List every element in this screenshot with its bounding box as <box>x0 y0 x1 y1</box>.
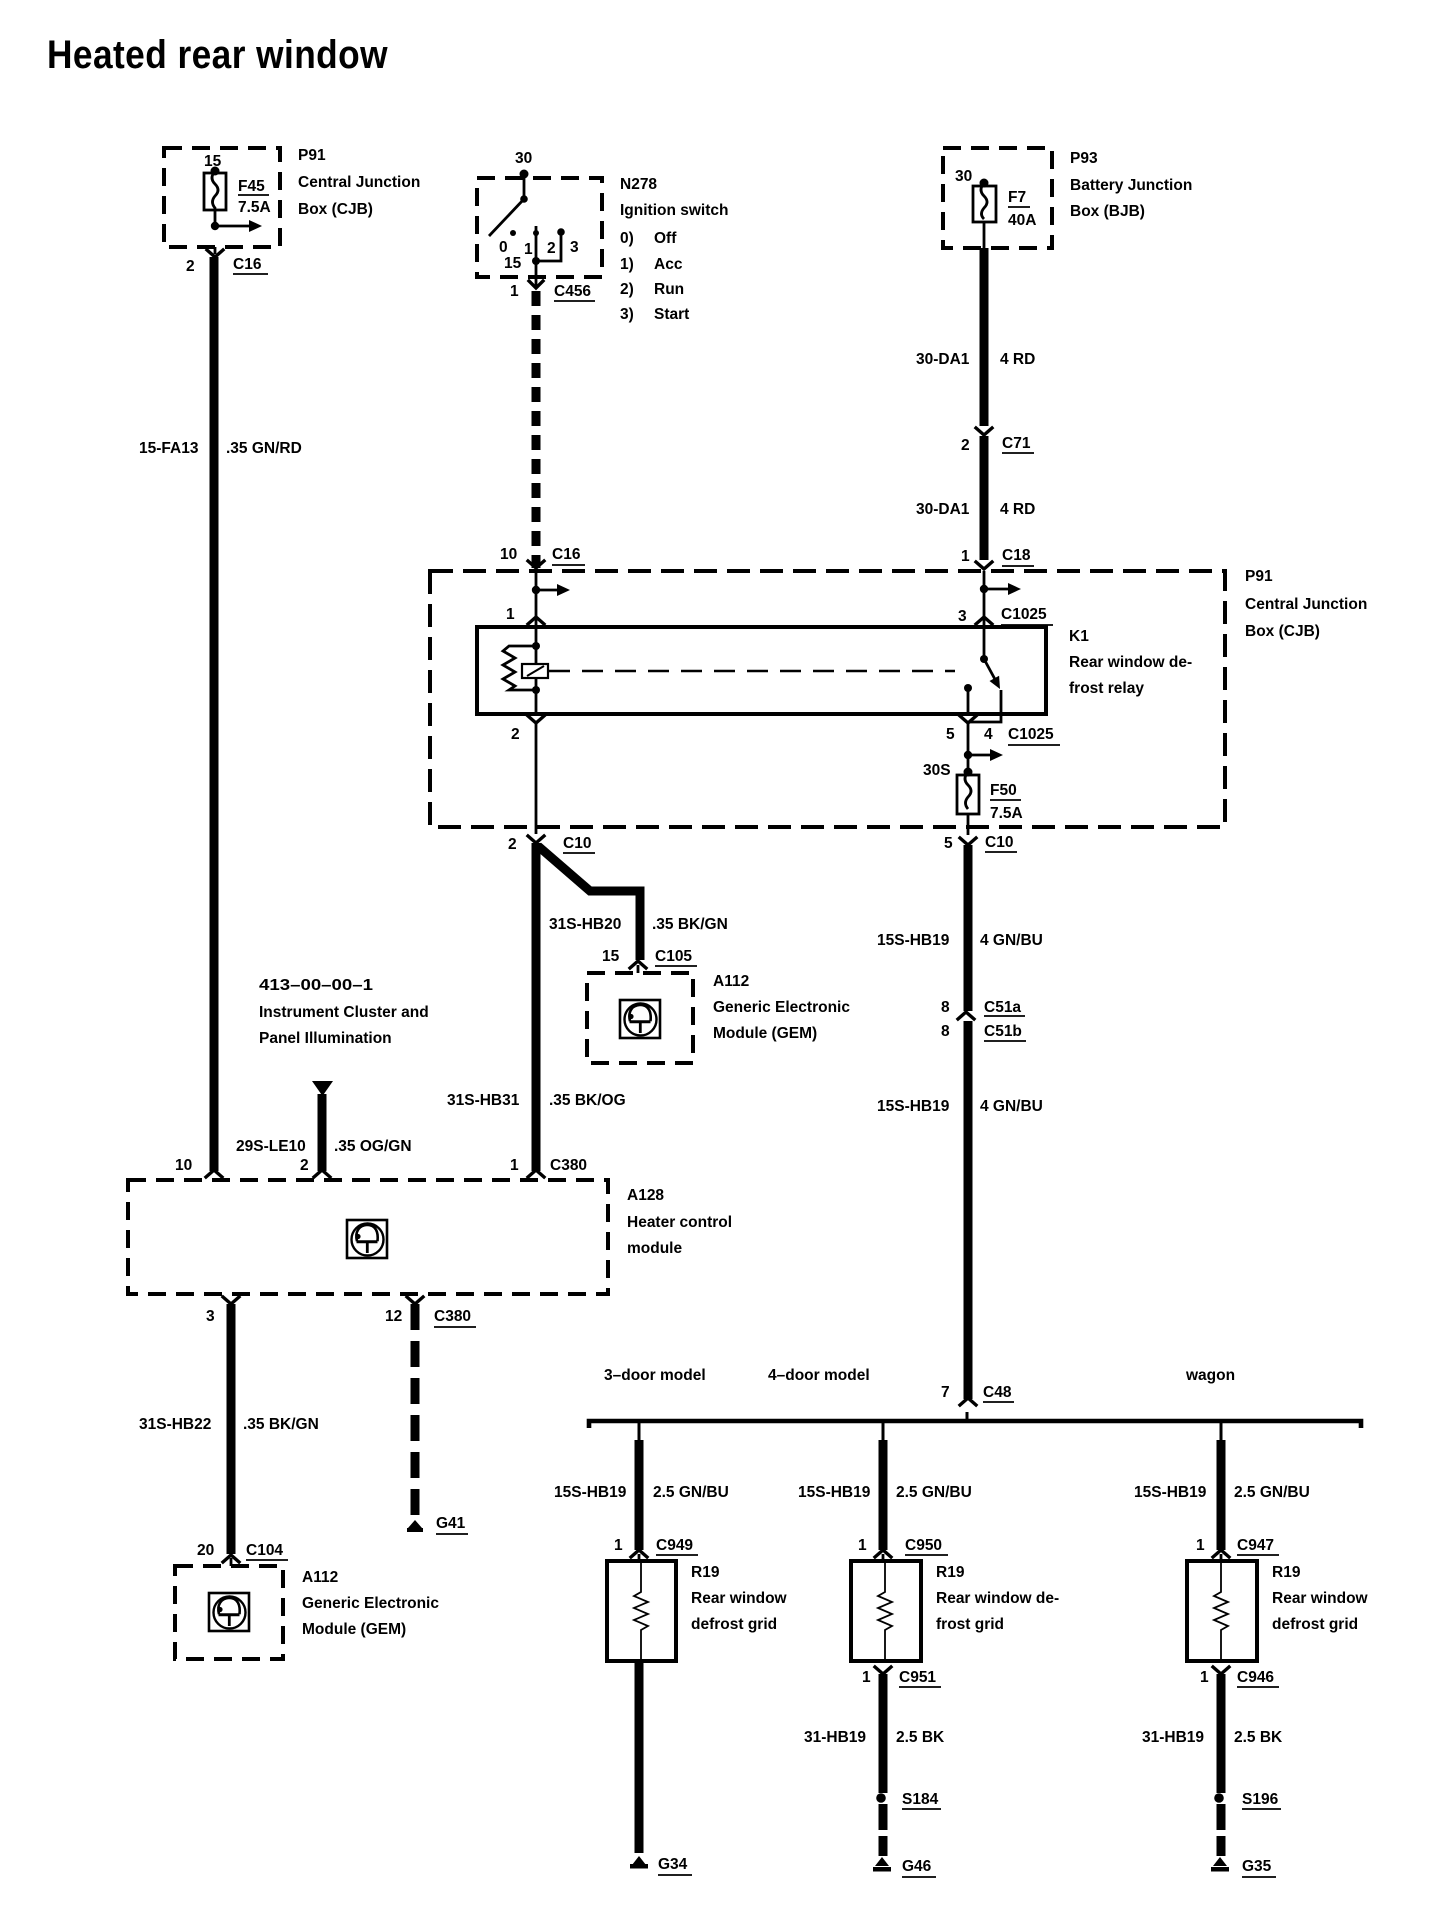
fuse F45 terminal dot <box>211 167 220 176</box>
svg-text:N278: N278 <box>620 176 657 193</box>
fuse F7 terminal dot <box>980 179 989 188</box>
connector C48 pin 7 <box>941 1384 1014 1405</box>
svg-text:4 GN/BU: 4 GN/BU <box>980 1098 1043 1115</box>
splice S196 <box>1214 1791 1281 1809</box>
svg-text:C380: C380 <box>550 1157 587 1174</box>
connector C104 pin 20 <box>197 1542 288 1566</box>
wire F50 to box edge <box>967 814 970 835</box>
svg-text:Central Junction: Central Junction <box>298 174 420 191</box>
svg-text:4 RD: 4 RD <box>1000 501 1035 518</box>
label 31-HB19 2.5 BK B <box>804 1729 945 1746</box>
svg-text:15-FA13: 15-FA13 <box>139 440 199 457</box>
svg-text:.35 GN/RD: .35 GN/RD <box>226 440 302 457</box>
connector C10 pin 5 <box>944 834 1017 852</box>
fuse F45 <box>204 171 226 222</box>
svg-text:Ignition switch: Ignition switch <box>620 202 729 219</box>
svg-text:Central Junction: Central Junction <box>1245 596 1367 613</box>
wire branch A <box>635 1440 644 1550</box>
svg-text:P91: P91 <box>1245 568 1273 585</box>
connector box P91 CJB large <box>430 571 1225 827</box>
svg-text:Box (CJB): Box (CJB) <box>298 201 373 218</box>
label 31S-HB20 .35 BK/GN <box>549 916 728 933</box>
svg-text:S196: S196 <box>1242 1791 1279 1808</box>
distribution bus bar <box>589 1421 1361 1428</box>
off-page arrow <box>312 1081 333 1096</box>
svg-text:2.5 GN/BU: 2.5 GN/BU <box>1234 1484 1310 1501</box>
svg-text:7.5A: 7.5A <box>990 805 1023 822</box>
wire branch C upper <box>1217 1440 1226 1550</box>
svg-text:3: 3 <box>570 239 579 256</box>
fuse F50 <box>957 772 979 814</box>
connector C456 pin 1 <box>510 281 595 301</box>
connector box P93 BJB <box>943 148 1052 248</box>
P93 labels <box>1070 150 1192 220</box>
svg-text:Off: Off <box>654 230 677 247</box>
label 15S-HB19 4 GN/BU <box>877 932 1043 949</box>
svg-text:1: 1 <box>961 548 970 565</box>
svg-text:C380: C380 <box>434 1308 471 1325</box>
svg-text:module: module <box>627 1240 682 1257</box>
connector box P91 CJB <box>164 148 280 247</box>
svg-text:2.5 BK: 2.5 BK <box>1234 1729 1283 1746</box>
svg-text:A128: A128 <box>627 1187 664 1204</box>
svg-text:Run: Run <box>654 281 684 298</box>
svg-text:4 GN/BU: 4 GN/BU <box>980 932 1043 949</box>
wire fuse to box edge <box>983 222 986 248</box>
A112 labels 2 <box>302 1569 439 1638</box>
connector C16 pin 2 <box>186 247 268 275</box>
splice S184 <box>876 1791 941 1809</box>
svg-text:30: 30 <box>955 168 972 185</box>
contact dot 2 <box>557 228 565 236</box>
ground G46 <box>873 1857 936 1877</box>
label 31-HB19 2.5 BK C <box>1142 1729 1283 1746</box>
resistor R19 grid C <box>1187 1561 1257 1661</box>
svg-text:F50: F50 <box>990 782 1017 799</box>
svg-text:C16: C16 <box>552 546 581 563</box>
svg-text:1: 1 <box>1200 1669 1209 1686</box>
pivot dot <box>520 195 528 203</box>
svg-text:29S-LE10: 29S-LE10 <box>236 1138 306 1155</box>
svg-text:Start: Start <box>654 306 689 323</box>
position labels 0 1 2 3 15 <box>499 239 579 272</box>
svg-text:Panel Illumination: Panel Illumination <box>259 1030 392 1047</box>
svg-text:31-HB19: 31-HB19 <box>1142 1729 1204 1746</box>
branch wire 31S-HB20 to GEM <box>538 846 640 960</box>
svg-text:2): 2) <box>620 281 634 298</box>
relay pin 3 <box>958 606 1053 625</box>
svg-text:C1025: C1025 <box>1001 606 1047 623</box>
relay actuator <box>522 664 548 678</box>
svg-text:G41: G41 <box>436 1515 466 1532</box>
label 29S-LE10 .35 OG/GN <box>236 1138 412 1155</box>
label F50 7.5A <box>990 782 1023 822</box>
svg-text:R19: R19 <box>691 1564 720 1581</box>
wire to C456 <box>535 261 538 287</box>
svg-text:3–door model: 3–door model <box>604 1367 706 1384</box>
wire contact to pin 5 <box>967 688 970 714</box>
svg-text:C10: C10 <box>985 834 1013 851</box>
svg-text:40A: 40A <box>1008 212 1036 229</box>
svg-text:5: 5 <box>946 726 955 743</box>
svg-text:frost grid: frost grid <box>936 1616 1004 1633</box>
svg-text:31-HB19: 31-HB19 <box>804 1729 866 1746</box>
svg-text:C951: C951 <box>899 1669 936 1686</box>
svg-text:4: 4 <box>984 726 993 743</box>
svg-text:A112: A112 <box>302 1569 338 1586</box>
svg-text:C18: C18 <box>1002 547 1031 564</box>
wire C48 to bus <box>966 1412 969 1421</box>
wire pin 2 down to C10 <box>535 723 538 834</box>
model labels <box>604 1367 1235 1384</box>
svg-text:C48: C48 <box>983 1384 1012 1401</box>
svg-text:30-DA1: 30-DA1 <box>916 351 970 368</box>
wire 30-DA1 upper <box>980 248 989 426</box>
svg-text:2.5 BK: 2.5 BK <box>896 1729 945 1746</box>
relay coil vertical wire <box>535 627 538 714</box>
svg-text:12: 12 <box>385 1308 402 1325</box>
wire 31-HB19 B <box>879 1674 888 1793</box>
svg-text:4 RD: 4 RD <box>1000 351 1035 368</box>
svg-text:15: 15 <box>602 948 620 965</box>
svg-text:15S-HB19: 15S-HB19 <box>1134 1484 1207 1501</box>
svg-text:15S-HB19: 15S-HB19 <box>877 932 950 949</box>
ground G34 <box>630 1856 692 1875</box>
pin 12 connector C380 <box>385 1297 476 1327</box>
pin 10 <box>175 1157 222 1177</box>
svg-text:P93: P93 <box>1070 150 1098 167</box>
svg-text:F45: F45 <box>238 178 265 195</box>
junction dot with arrow (right) <box>980 583 1021 595</box>
wire 15S-HB19 upper <box>964 845 973 1011</box>
wire to ground A <box>635 1662 644 1853</box>
connector C946 pin 1 <box>1200 1667 1279 1687</box>
svg-text:Module (GEM): Module (GEM) <box>713 1025 817 1042</box>
label 15S-HB19 2.5 GN/BU B <box>798 1484 972 1501</box>
wire contact 2 down-left <box>536 232 561 261</box>
label F45 7.5A <box>238 178 271 216</box>
wire branch A stub <box>638 1423 641 1440</box>
pin 1 C380 <box>510 1157 587 1177</box>
svg-text:10: 10 <box>175 1157 192 1174</box>
GEM icon <box>620 1000 660 1038</box>
svg-text:Box (CJB): Box (CJB) <box>1245 623 1320 640</box>
svg-text:.35 BK/GN: .35 BK/GN <box>243 1416 319 1433</box>
junction dot with arrow <box>211 220 262 232</box>
P91 labels <box>298 147 420 218</box>
svg-text:Instrument Cluster and: Instrument Cluster and <box>259 1004 429 1021</box>
connector C949 pin 1 <box>614 1537 698 1561</box>
svg-text:1): 1) <box>620 256 634 273</box>
relay contact dot pin 5 <box>964 684 972 692</box>
wire 15-FA13 <box>210 257 219 1171</box>
N278 labels <box>620 176 729 323</box>
connector C71 pin 2 <box>961 428 1034 454</box>
fuse F50 terminal dot <box>964 768 973 777</box>
svg-text:15S-HB19: 15S-HB19 <box>798 1484 871 1501</box>
GEM module A112 box <box>587 973 693 1063</box>
svg-text:C1025: C1025 <box>1008 726 1054 743</box>
svg-text:1: 1 <box>510 1157 519 1174</box>
svg-text:31S-HB20: 31S-HB20 <box>549 916 621 933</box>
svg-text:30-DA1: 30-DA1 <box>916 501 970 518</box>
svg-text:Heated rear window: Heated rear window <box>47 33 388 77</box>
connector C10 pin 2 <box>508 835 595 853</box>
heater control module A128 box <box>128 1180 608 1294</box>
terminal 30 dot <box>520 170 529 179</box>
connector box N278 <box>477 178 602 277</box>
svg-text:0): 0) <box>620 230 634 247</box>
svg-text:31S-HB22: 31S-HB22 <box>139 1416 211 1433</box>
GEM icon 2 <box>209 1593 249 1631</box>
instrument cluster labels <box>259 977 429 1047</box>
relay link dashed <box>549 670 955 672</box>
svg-text:8: 8 <box>941 999 950 1016</box>
label 15S-HB19 2.5 GN/BU A <box>554 1484 729 1501</box>
svg-text:C949: C949 <box>656 1537 693 1554</box>
wire pin 5 down <box>967 723 970 773</box>
wire splice to ground B dashed <box>879 1804 888 1856</box>
svg-text:2.5 GN/BU: 2.5 GN/BU <box>896 1484 972 1501</box>
svg-text:1: 1 <box>524 241 533 258</box>
wire pin10 to relay pin 1 <box>535 571 538 625</box>
pin 2 <box>300 1157 330 1177</box>
wire 30-DA1 lower <box>980 436 989 560</box>
label 31S-HB31 .35 BK/OG <box>447 1092 626 1109</box>
label 30-DA1 4 RD <box>916 351 1035 368</box>
wire branch B upper <box>879 1440 888 1550</box>
relay coil winding <box>503 646 536 690</box>
svg-text:20: 20 <box>197 1542 214 1559</box>
resistor R19 grid B <box>851 1561 921 1661</box>
svg-text:15S-HB19: 15S-HB19 <box>554 1484 627 1501</box>
svg-text:Battery Junction: Battery Junction <box>1070 177 1192 194</box>
wire 29S-LE10 <box>318 1094 327 1171</box>
wire 15S-HB19 lower <box>964 1021 973 1399</box>
svg-text:2: 2 <box>961 437 970 454</box>
P91 labels right <box>1245 568 1367 640</box>
junction dot with arrow (left) <box>532 584 570 596</box>
svg-text:Rear window: Rear window <box>691 1590 788 1607</box>
ground G35 <box>1211 1857 1276 1877</box>
svg-text:3: 3 <box>206 1308 215 1325</box>
svg-text:1: 1 <box>862 1669 871 1686</box>
connector C18 pin 1 <box>961 547 1034 569</box>
connector C16 pin 10 <box>500 546 585 568</box>
label F7 40A <box>1008 189 1036 229</box>
A128 labels <box>627 1187 732 1257</box>
svg-text:G35: G35 <box>1242 1858 1272 1875</box>
svg-text:S184: S184 <box>902 1791 939 1808</box>
svg-text:Heater control: Heater control <box>627 1214 732 1231</box>
svg-text:defrost grid: defrost grid <box>691 1616 777 1633</box>
svg-text:C950: C950 <box>905 1537 942 1554</box>
svg-text:1: 1 <box>506 606 515 623</box>
svg-text:5: 5 <box>944 835 953 852</box>
fuse F7 <box>973 183 996 222</box>
svg-text:30S: 30S <box>923 762 951 779</box>
wire C18 to relay pin 3 <box>983 571 986 625</box>
label 31S-HB22 .35 BK/GN <box>139 1416 319 1433</box>
svg-text:A112: A112 <box>713 973 749 990</box>
svg-text:K1: K1 <box>1069 628 1089 645</box>
wire splice to ground C dashed <box>1217 1804 1226 1856</box>
wire to G41 dashed <box>411 1304 420 1519</box>
svg-text:2: 2 <box>511 726 520 743</box>
connector C947 pin 1 <box>1196 1537 1279 1561</box>
R19 labels A <box>691 1564 788 1633</box>
svg-text:30: 30 <box>515 150 532 167</box>
svg-text:C946: C946 <box>1237 1669 1274 1686</box>
svg-text:C51a: C51a <box>984 999 1021 1016</box>
relay K1 box <box>477 627 1046 714</box>
relay coil bottom dot <box>532 686 540 694</box>
svg-text:2: 2 <box>508 836 517 853</box>
svg-text:1: 1 <box>1196 1537 1205 1554</box>
svg-text:G46: G46 <box>902 1858 932 1875</box>
wire branch C stub <box>1220 1423 1223 1440</box>
svg-text:.35 BK/OG: .35 BK/OG <box>549 1092 626 1109</box>
switch blade <box>489 199 524 236</box>
svg-text:frost relay: frost relay <box>1069 680 1144 697</box>
svg-text:7: 7 <box>941 1384 950 1401</box>
svg-text:C456: C456 <box>554 283 591 300</box>
svg-text:4–door model: 4–door model <box>768 1367 870 1384</box>
relay pin 1 <box>506 606 544 624</box>
svg-text:1: 1 <box>614 1537 623 1554</box>
svg-text:413–00–00–1: 413–00–00–1 <box>259 977 373 994</box>
ground G41 <box>407 1515 468 1534</box>
svg-text:Generic Electronic: Generic Electronic <box>302 1595 439 1612</box>
svg-text:defrost grid: defrost grid <box>1272 1616 1358 1633</box>
svg-text:C16: C16 <box>233 256 262 273</box>
svg-text:0: 0 <box>499 239 508 256</box>
connector C51a C51b <box>941 999 1026 1041</box>
svg-text:2: 2 <box>300 1157 309 1174</box>
A128 icon <box>347 1220 387 1258</box>
relay switch common wire <box>983 627 986 659</box>
svg-text:10: 10 <box>500 546 517 563</box>
relay pin 5 connector <box>946 716 1060 745</box>
junction dot <box>532 257 540 265</box>
label 15S-HB19 2.5 GN/BU C <box>1134 1484 1310 1501</box>
relay switch pivot dot <box>980 655 988 663</box>
connector C105 pin 15 <box>602 948 697 973</box>
connector C950 pin 1 <box>858 1537 948 1561</box>
label 15S-HB19 4 GN/BU lower <box>877 1098 1043 1115</box>
svg-text:Rear window de-: Rear window de- <box>936 1590 1059 1607</box>
switch pivot wire <box>523 174 526 198</box>
wire 31-HB19 C <box>1217 1674 1226 1793</box>
svg-text:8: 8 <box>941 1023 950 1040</box>
svg-text:Generic Electronic: Generic Electronic <box>713 999 850 1016</box>
label 15-FA13 .35 GN/RD <box>139 440 302 457</box>
svg-text:7.5A: 7.5A <box>238 199 271 216</box>
K1 labels <box>1069 628 1192 697</box>
svg-text:G34: G34 <box>658 1856 688 1873</box>
wire blade end pin 4 <box>970 690 1001 722</box>
svg-text:Module (GEM): Module (GEM) <box>302 1621 406 1638</box>
R19 labels C <box>1272 1564 1369 1633</box>
svg-text:R19: R19 <box>1272 1564 1301 1581</box>
label 30-DA1 4 RD lower <box>916 501 1035 518</box>
svg-text:2: 2 <box>547 240 556 257</box>
svg-text:C10: C10 <box>563 835 591 852</box>
svg-text:2.5 GN/BU: 2.5 GN/BU <box>653 1484 729 1501</box>
svg-text:.35 OG/GN: .35 OG/GN <box>334 1138 412 1155</box>
svg-text:P91: P91 <box>298 147 326 164</box>
svg-text:31S-HB31: 31S-HB31 <box>447 1092 520 1109</box>
svg-text:Rear window: Rear window <box>1272 1590 1369 1607</box>
svg-text:F7: F7 <box>1008 189 1026 206</box>
pin 3 connector <box>206 1297 239 1325</box>
svg-text:C51b: C51b <box>984 1023 1022 1040</box>
svg-text:15S-HB19: 15S-HB19 <box>877 1098 950 1115</box>
contact dot 1 <box>533 230 539 236</box>
wire branch B stub <box>882 1423 885 1440</box>
svg-text:2: 2 <box>186 258 195 275</box>
svg-text:Acc: Acc <box>654 256 683 273</box>
svg-text:Rear window de-: Rear window de- <box>1069 654 1192 671</box>
junction dot with arrow 30S <box>964 749 1003 761</box>
relay coil top dot <box>532 642 540 650</box>
contact dot 0 <box>510 230 516 236</box>
relay pin 2 <box>511 716 544 743</box>
wire contact 1 down <box>535 226 538 261</box>
svg-text:Box (BJB): Box (BJB) <box>1070 203 1145 220</box>
A112 labels <box>713 973 850 1042</box>
svg-text:R19: R19 <box>936 1564 965 1581</box>
GEM module A112 box 2 <box>175 1566 283 1659</box>
svg-text:C947: C947 <box>1237 1537 1274 1554</box>
svg-text:15: 15 <box>504 255 522 272</box>
svg-text:C71: C71 <box>1002 435 1031 452</box>
svg-text:1: 1 <box>510 283 519 300</box>
relay switch blade <box>984 659 1000 689</box>
R19 labels B <box>936 1564 1059 1633</box>
resistor R19 grid A <box>607 1561 676 1661</box>
svg-text:wagon: wagon <box>1185 1367 1235 1384</box>
svg-text:3: 3 <box>958 608 967 625</box>
wire ignition to CJB dashed <box>532 291 541 568</box>
wire 31S-HB22 <box>227 1304 236 1554</box>
connector C951 pin 1 <box>862 1667 941 1687</box>
svg-text:C104: C104 <box>246 1542 283 1559</box>
svg-text:.35 BK/GN: .35 BK/GN <box>652 916 728 933</box>
wire 31S-HB31 main <box>532 843 541 1171</box>
svg-text:1: 1 <box>858 1537 867 1554</box>
svg-text:3): 3) <box>620 306 634 323</box>
svg-text:C105: C105 <box>655 948 692 965</box>
